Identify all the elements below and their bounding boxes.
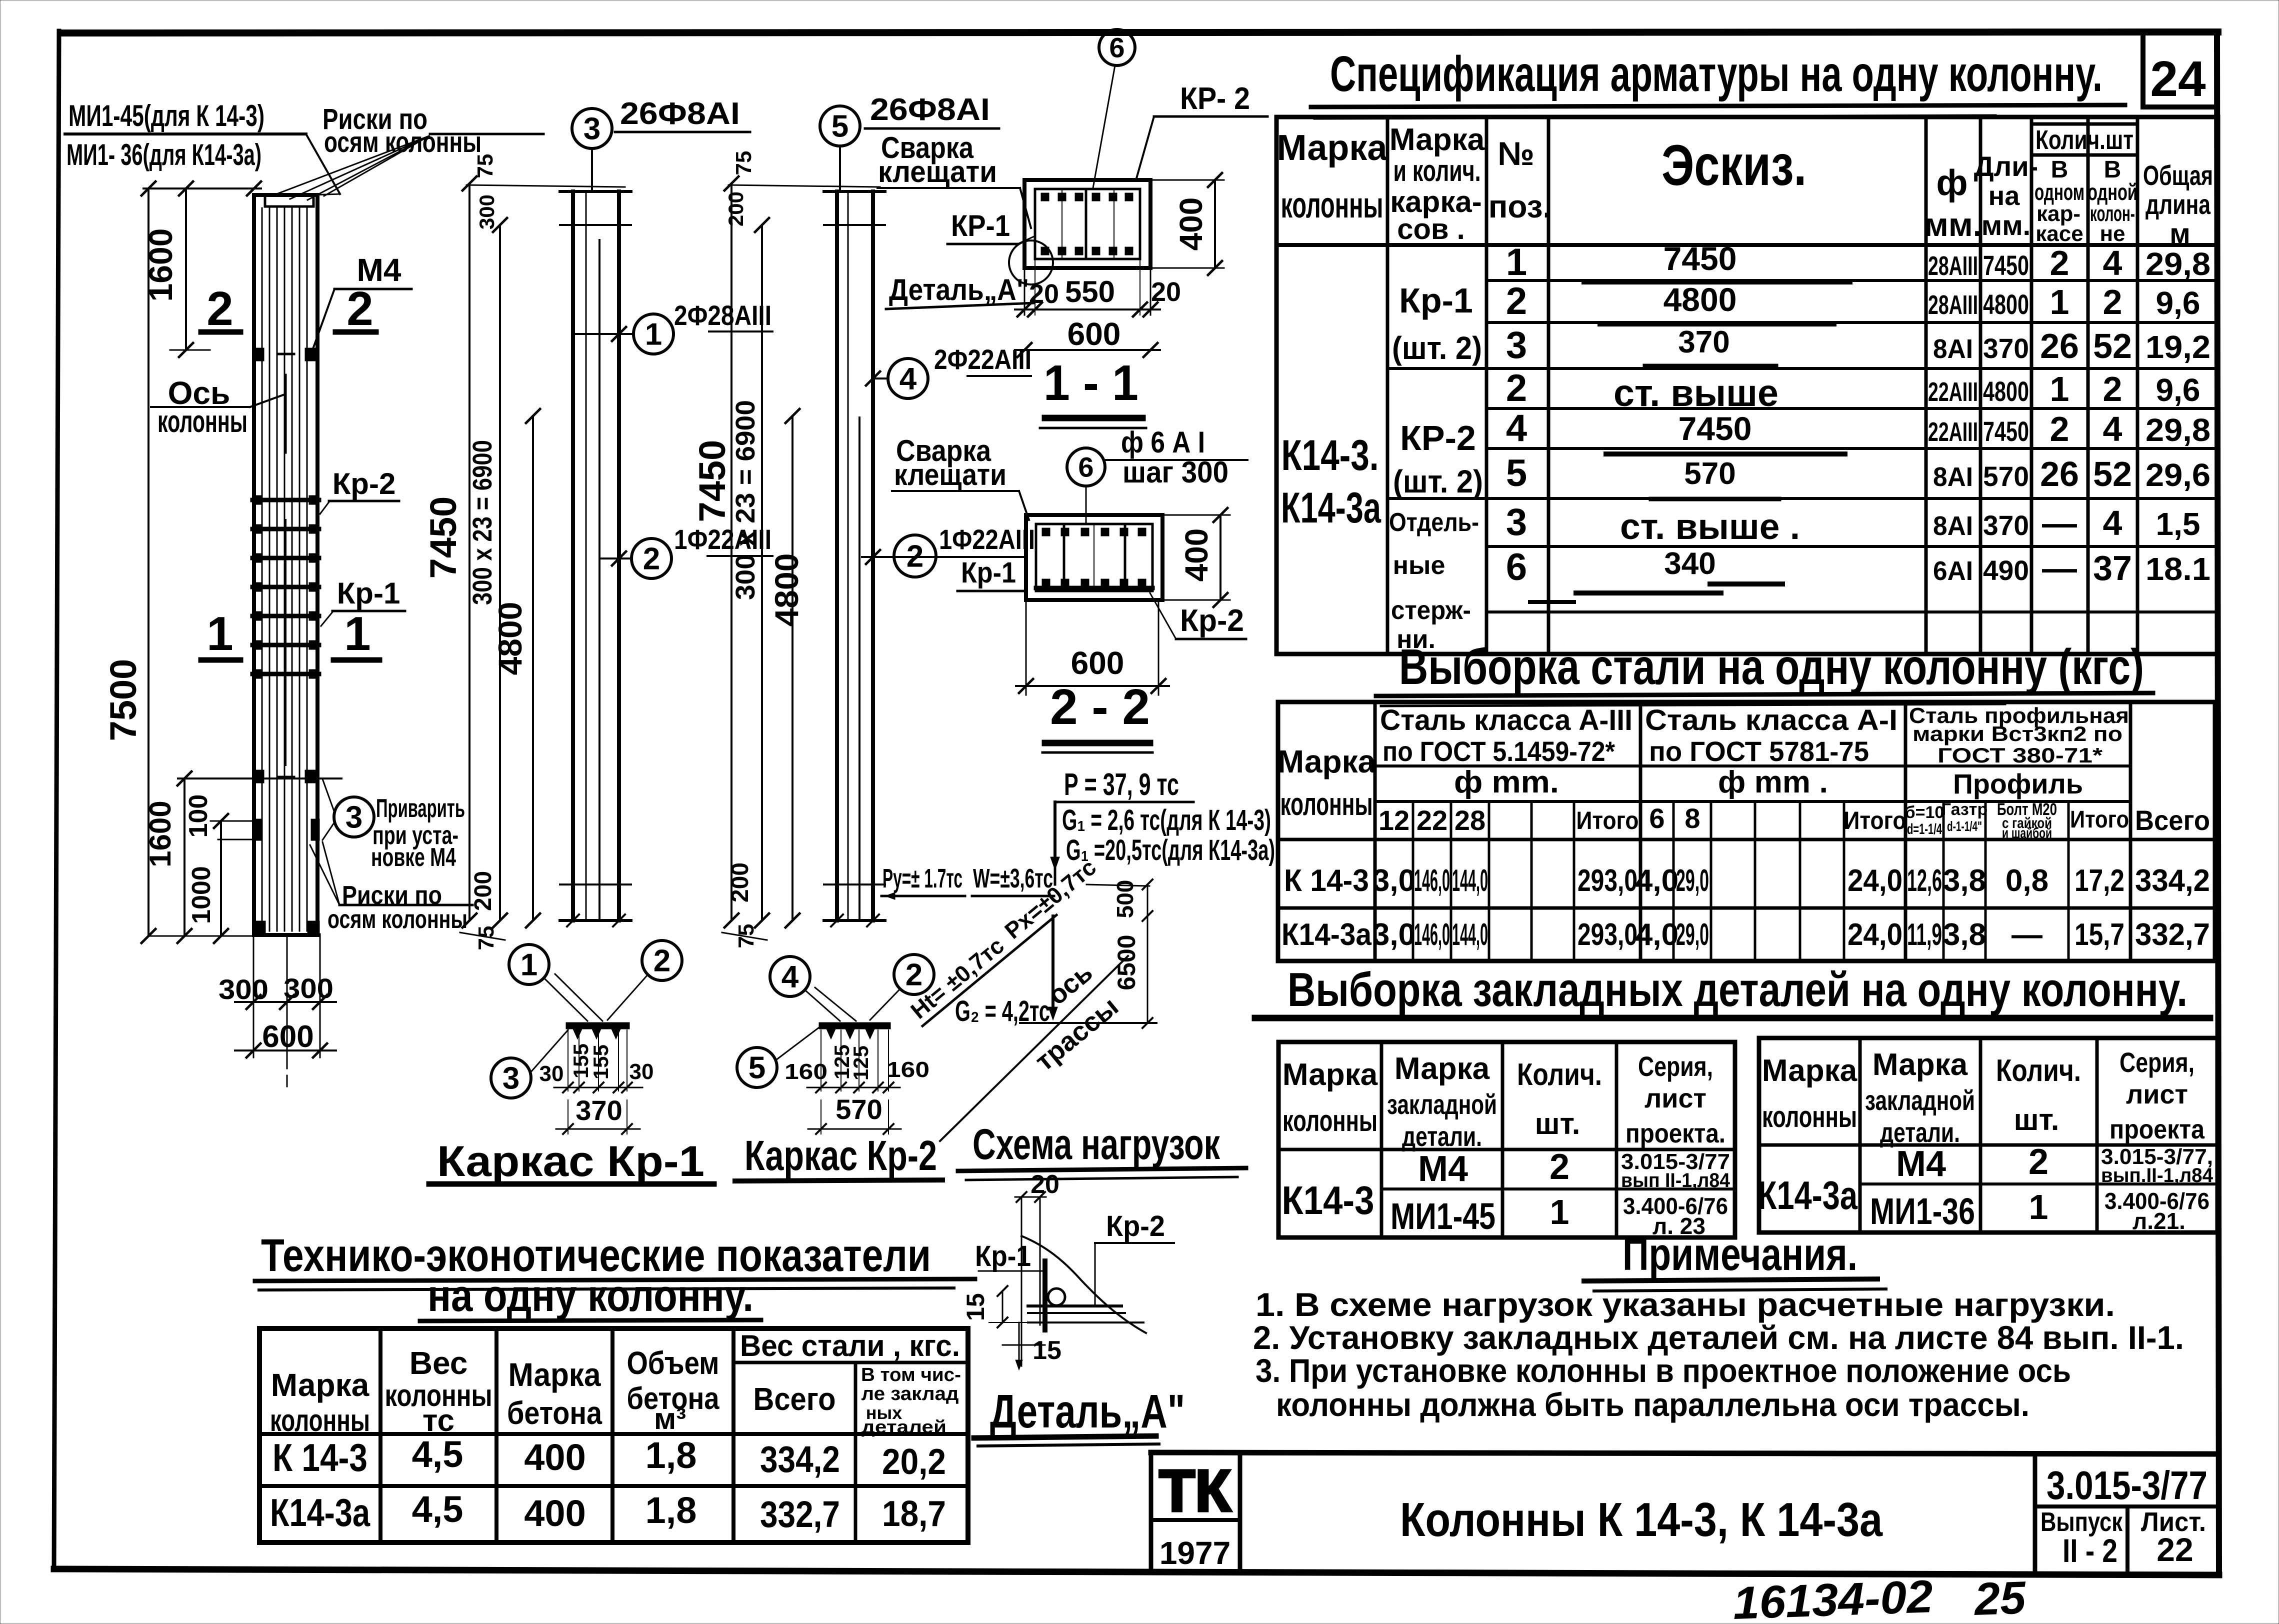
- svg-text:2: 2: [643, 542, 660, 576]
- svg-text:ф mm.: ф mm.: [1454, 765, 1559, 799]
- detail A anchor bar: [1042, 1261, 1047, 1330]
- sheet frame top border: [64, 32, 2218, 33]
- svg-text:550: 550: [1065, 275, 1115, 308]
- svg-text:на одну колонну.: на одну колонну.: [427, 1271, 753, 1321]
- svg-text:К 14-3: К 14-3: [1284, 863, 1369, 898]
- svg-text:22: 22: [2156, 1531, 2193, 1568]
- svg-text:570: 570: [1684, 456, 1735, 491]
- svg-text:3. При установке колонны в: 3. При установке колонны в проектное пол…: [1255, 1352, 2071, 1389]
- svg-text:1: 1: [520, 948, 537, 982]
- svg-text:9,6: 9,6: [2156, 285, 2200, 321]
- dim 400 section 2-2: [1219, 515, 1221, 600]
- svg-text:Ру=± 1.7тс: Ру=± 1.7тс: [882, 863, 962, 893]
- svg-text:300: 300: [283, 972, 333, 1004]
- svg-text:—: —: [2042, 548, 2077, 587]
- svg-text:370: 370: [1678, 325, 1729, 359]
- svg-text:24: 24: [2150, 51, 2206, 107]
- svg-text:5: 5: [748, 1051, 765, 1085]
- svg-text:3: 3: [1506, 501, 1527, 543]
- dim 300 300: [235, 1001, 336, 1003]
- svg-text:18.1: 18.1: [2145, 551, 2210, 587]
- svg-text:370: 370: [575, 1094, 622, 1126]
- column bottom risk marks: [253, 819, 262, 840]
- svg-text:3: 3: [1506, 324, 1527, 366]
- svg-text:600: 600: [262, 1019, 313, 1054]
- svg-text:30: 30: [629, 1059, 654, 1084]
- svg-text:Марка: Марка: [1282, 1057, 1378, 1092]
- svg-text:Марка: Марка: [1389, 122, 1485, 157]
- svg-text:Колич.: Колич.: [1517, 1057, 1602, 1092]
- dim 500: [1147, 884, 1148, 916]
- svg-text:№: №: [1497, 135, 1534, 172]
- svg-text:12: 12: [1378, 804, 1409, 836]
- svg-text:(шт. 2): (шт. 2): [1393, 463, 1483, 499]
- svg-text:24,0: 24,0: [1847, 917, 1902, 952]
- svg-text:Марка: Марка: [1394, 1051, 1490, 1086]
- detail A bottom arrow: [1018, 1322, 1020, 1368]
- svg-text:ле заклад: ле заклад: [861, 1383, 959, 1404]
- svg-text:1: 1: [1506, 241, 1527, 283]
- svg-text:Каркас Кр-2: Каркас Кр-2: [744, 1132, 937, 1179]
- svg-text:Выборка стали на одну коло: Выборка стали на одну колонну (кгс): [1399, 639, 2144, 695]
- svg-text:200: 200: [727, 862, 753, 902]
- svg-text:Кр-1: Кр-1: [975, 1240, 1031, 1272]
- svg-text:15: 15: [1032, 1336, 1061, 1365]
- svg-text:22: 22: [1416, 804, 1447, 836]
- dim 600 bottom: [235, 1049, 336, 1051]
- svg-text:2: 2: [1506, 280, 1527, 322]
- embedded parts right table grid: [1759, 1038, 2217, 1232]
- column stirrup band Kp-1: [252, 498, 319, 502]
- svg-text:570: 570: [1983, 460, 2029, 492]
- svg-text:не: не: [2099, 221, 2125, 246]
- svg-text:300: 300: [475, 194, 498, 229]
- plan Kp-2 bar: [819, 1022, 890, 1029]
- svg-text:Колич.шт: Колич.шт: [2035, 125, 2133, 155]
- riski leader fan: [274, 136, 429, 195]
- svg-text:6АI: 6АI: [1933, 556, 1973, 586]
- svg-text:1: 1: [344, 607, 370, 660]
- svg-text:20: 20: [1030, 1170, 1059, 1199]
- tech-econ table grid: [259, 1328, 968, 1542]
- svg-text:3,8: 3,8: [1943, 863, 1986, 898]
- svg-text:300 х 23 = 6900: 300 х 23 = 6900: [730, 400, 760, 600]
- svg-text:колонны: колонны: [270, 1403, 370, 1438]
- plan Kp-1 dims: [554, 1087, 642, 1088]
- svg-text:Кр-2: Кр-2: [1106, 1210, 1165, 1242]
- svg-text:7450: 7450: [1983, 249, 2029, 281]
- svg-text:4: 4: [2103, 503, 2122, 542]
- svg-text:W=±3,6тс: W=±3,6тс: [973, 863, 1053, 893]
- svg-text:поз.: поз.: [1488, 188, 1552, 224]
- svg-text:332,7: 332,7: [760, 1493, 840, 1535]
- svg-text:Кр-1: Кр-1: [961, 556, 1016, 589]
- detail A verticals: [1021, 1197, 1022, 1366]
- svg-text:4: 4: [1506, 407, 1527, 449]
- svg-text:Отдель-: Отдель-: [1389, 508, 1479, 537]
- svg-text:15,7: 15,7: [2074, 917, 2124, 952]
- svg-text:Выборка закладных деталей н: Выборка закладных деталей на одну колонн…: [1287, 963, 2187, 1016]
- svg-text:570: 570: [835, 1093, 882, 1125]
- dim 300x23=6900 col2: [499, 225, 501, 920]
- svg-text:4,0: 4,0: [1635, 917, 1678, 952]
- svg-text:300: 300: [218, 973, 268, 1005]
- svg-text:Марка: Марка: [1762, 1053, 1857, 1088]
- svg-text:по ГОСТ 5781-75: по ГОСТ 5781-75: [1649, 735, 1869, 767]
- svg-text:осям колонны: осям колонны: [324, 126, 481, 158]
- svg-text:1,8: 1,8: [645, 1489, 697, 1531]
- dim 400 section 1-1: [1214, 180, 1216, 268]
- svg-text:Деталь„А": Деталь„А": [990, 1385, 1185, 1438]
- svg-text:4: 4: [2103, 409, 2122, 448]
- svg-text:II - 2: II - 2: [2062, 1532, 2117, 1569]
- svg-text:1: 1: [2050, 282, 2069, 321]
- svg-text:детали.: детали.: [1402, 1120, 1482, 1152]
- svg-text:К14-3а: К14-3а: [1281, 484, 1381, 532]
- svg-text:16134-02: 16134-02: [1732, 1571, 1933, 1624]
- svg-text:25: 25: [1972, 1572, 2027, 1624]
- svg-text:6: 6: [1506, 546, 1527, 588]
- svg-text:146,0: 146,0: [1414, 917, 1450, 952]
- svg-text:4,5: 4,5: [412, 1488, 463, 1530]
- svg-text:3: 3: [502, 1061, 519, 1096]
- plan Kp-1 circled 3: [491, 1058, 531, 1098]
- svg-text:КР-2: КР-2: [1400, 418, 1476, 457]
- dim 7450 col2: [468, 183, 470, 920]
- svg-text:29,8: 29,8: [2145, 246, 2210, 282]
- svg-text:340: 340: [1664, 546, 1715, 581]
- cage Kp-1 top ticks: [560, 190, 631, 193]
- svg-text:2: 2: [2050, 243, 2069, 282]
- svg-text:4800: 4800: [1983, 288, 2029, 320]
- svg-text:Схема нагрузок: Схема нагрузок: [972, 1120, 1220, 1168]
- svg-text:К14-3а: К14-3а: [1281, 917, 1371, 952]
- svg-text:400: 400: [1173, 197, 1209, 251]
- svg-text:Колонны К 14-3, К 14-3а: Колонны К 14-3, К 14-3а: [1400, 1493, 1883, 1546]
- svg-text:ф mm .: ф mm .: [1718, 765, 1828, 799]
- svg-text:37: 37: [2093, 548, 2132, 587]
- svg-text:200: 200: [724, 191, 747, 226]
- svg-text:К14-3а: К14-3а: [1757, 1173, 1857, 1217]
- svg-text:12,6: 12,6: [1907, 863, 1942, 898]
- load arrow G2: [1051, 916, 1054, 1015]
- svg-text:2: 2: [653, 944, 670, 978]
- svg-text:19,2: 19,2: [2145, 329, 2210, 365]
- section 1-1 rebar dots: [1041, 193, 1049, 201]
- svg-text:300 х 23 = 6900: 300 х 23 = 6900: [467, 440, 497, 605]
- svg-text:ГОСТ 380-71*: ГОСТ 380-71*: [1937, 743, 2103, 767]
- svg-text:колонны должна быть паралл: колонны должна быть параллельна оси трас…: [1276, 1386, 2029, 1423]
- spec table row lines: [1486, 279, 2218, 282]
- svg-text:шт.: шт.: [2014, 1103, 2059, 1136]
- svg-text:К14-3а: К14-3а: [270, 1490, 370, 1534]
- svg-text:5: 5: [831, 109, 848, 144]
- svg-text:400: 400: [524, 1436, 585, 1478]
- circled 2 col2: [631, 538, 671, 578]
- svg-text:—: —: [2042, 503, 2077, 542]
- svg-text:400: 400: [524, 1492, 585, 1534]
- svg-text:7450: 7450: [691, 440, 733, 522]
- detail A break line: [1021, 1236, 1146, 1333]
- svg-text:7450: 7450: [1678, 410, 1752, 447]
- svg-text:(шт. 2): (шт. 2): [1392, 330, 1482, 366]
- svg-text:1: 1: [2050, 369, 2069, 408]
- svg-text:26Ф8АI: 26Ф8АI: [620, 96, 740, 131]
- plan Kp-2 circled 5: [737, 1047, 777, 1087]
- detail A circle on corner: [1009, 240, 1053, 284]
- svg-text:52: 52: [2093, 326, 2132, 365]
- section 2-2 stirrup rect: [1036, 524, 1152, 591]
- svg-text:клещати: клещати: [878, 155, 997, 188]
- svg-text:4: 4: [2103, 243, 2122, 282]
- svg-text:Вес: Вес: [409, 1345, 468, 1381]
- svg-text:Кр-2: Кр-2: [332, 467, 396, 500]
- svg-text:2: 2: [905, 958, 922, 992]
- svg-text:по ГОСТ 5.1459-72*: по ГОСТ 5.1459-72*: [1382, 735, 1615, 767]
- svg-text:Итого: Итого: [2070, 806, 2129, 833]
- plan Kp-2 dims: [807, 1087, 900, 1088]
- axis of route diagonal: [940, 956, 1128, 1141]
- svg-text:1: 1: [2029, 1187, 2048, 1226]
- svg-text:9,6: 9,6: [2156, 372, 2200, 408]
- dim 600 section 1-1: [1015, 349, 1160, 351]
- column 1 bottom extension lines: [253, 934, 254, 1057]
- svg-text:1600: 1600: [143, 800, 177, 867]
- svg-text:вып.II-1,л84: вып.II-1,л84: [2101, 1164, 2213, 1186]
- svg-text:600: 600: [1067, 316, 1121, 352]
- svg-text:8АI: 8АI: [1933, 334, 1973, 364]
- svg-text:3,8: 3,8: [1943, 917, 1986, 952]
- circled 5 top: [820, 106, 860, 146]
- section 2-2 outer rect: [1026, 515, 1162, 600]
- svg-text:7500: 7500: [102, 659, 144, 741]
- section 1-1 inner verticals: [1085, 189, 1087, 259]
- svg-text:8АI: 8АI: [1933, 462, 1973, 492]
- svg-text:144,0: 144,0: [1452, 917, 1488, 952]
- svg-text:370: 370: [1983, 332, 2029, 364]
- spec table kolich box: [2031, 125, 2137, 126]
- load base line: [1020, 1022, 1156, 1024]
- plan Kp-2 circled 2: [894, 954, 934, 994]
- svg-text:Кр-2: Кр-2: [1180, 603, 1244, 638]
- plan Kp-1 leaders: [545, 979, 587, 1021]
- svg-text:Р = 37, 9 тс: Р = 37, 9 тс: [1064, 767, 1179, 802]
- plan Kp-2 extension lines: [820, 1030, 821, 1091]
- svg-text:22АIII: 22АIII: [1928, 377, 1978, 407]
- embedded parts left table grid: [1278, 1042, 1735, 1237]
- svg-text:колонны: колонны: [1762, 1100, 1857, 1133]
- plan Kp-1 extension lines: [567, 1030, 568, 1091]
- svg-text:155: 155: [589, 1044, 612, 1079]
- svg-text:КР- 2: КР- 2: [1180, 81, 1250, 116]
- svg-text:Марка: Марка: [508, 1356, 601, 1393]
- svg-text:1,5: 1,5: [2156, 506, 2200, 542]
- leaders from circled 3: [322, 779, 334, 811]
- svg-text:Итого: Итого: [1844, 806, 1906, 834]
- svg-text:Спецификация арматуры на од: Спецификация арматуры на одну колонну.: [1330, 46, 2102, 102]
- svg-text:колонны: колонны: [1280, 786, 1373, 822]
- svg-text:Дли-: Дли-: [1974, 150, 2038, 182]
- svg-text:бетона: бетона: [507, 1395, 602, 1431]
- svg-text:проекта.: проекта.: [1625, 1118, 1725, 1148]
- svg-text:2: 2: [2103, 282, 2122, 321]
- svg-text:8: 8: [1684, 802, 1700, 834]
- svg-text:3: 3: [583, 112, 600, 146]
- svg-text:29,8: 29,8: [2145, 412, 2210, 448]
- svg-text:2Ф28АIII: 2Ф28АIII: [674, 299, 771, 331]
- svg-text:2: 2: [2103, 369, 2122, 408]
- svg-text:М4: М4: [1896, 1144, 1946, 1184]
- svg-text:6: 6: [1109, 32, 1124, 63]
- svg-text:3: 3: [345, 800, 362, 835]
- column K14-3 elevation body: [254, 195, 317, 935]
- svg-text:Сталь класса А-I: Сталь класса А-I: [1645, 704, 1897, 736]
- section 1-1 outer rect: [1024, 180, 1150, 268]
- svg-text:400: 400: [1178, 528, 1214, 582]
- svg-text:Марка: Марка: [1277, 743, 1376, 779]
- svg-text:Каркас Кр-1: Каркас Кр-1: [437, 1137, 704, 1185]
- svg-text:17,2: 17,2: [2074, 863, 2124, 898]
- svg-text:G₁ =20,5тс(для К14-3а): G₁ =20,5тс(для К14-3а): [1066, 834, 1275, 866]
- svg-text:стерж-: стерж-: [1391, 596, 1471, 625]
- title block frame: [1151, 1452, 2219, 1454]
- svg-text:1600: 1600: [142, 228, 179, 302]
- svg-text:Общая: Общая: [2143, 159, 2213, 191]
- column embed M4 lower marks: [252, 770, 264, 783]
- svg-text:4800: 4800: [1663, 281, 1737, 318]
- svg-text:ные: ные: [1393, 551, 1445, 580]
- svg-text:Серия,: Серия,: [1638, 1050, 1713, 1082]
- svg-text:Всего: Всего: [753, 1381, 836, 1417]
- top dim line column 1: [143, 187, 261, 189]
- svg-text:3,0: 3,0: [1372, 863, 1415, 898]
- svg-text:20: 20: [1151, 277, 1181, 307]
- svg-text:1000: 1000: [187, 866, 216, 924]
- section 1-1 stirrup rect: [1035, 189, 1140, 259]
- svg-text:2: 2: [2050, 409, 2069, 448]
- svg-text:125: 125: [849, 1045, 872, 1080]
- svg-text:МИ1-45: МИ1-45: [1390, 1195, 1495, 1237]
- plan Kp-2 circled 4: [770, 956, 810, 996]
- svg-text:Колич.: Колич.: [1996, 1053, 2081, 1088]
- svg-text:ст. выше: ст. выше: [1613, 372, 1778, 414]
- svg-text:Газтр: Газтр: [1941, 800, 1987, 819]
- svg-text:м³: м³: [654, 1402, 686, 1435]
- svg-text:500: 500: [1112, 880, 1138, 918]
- svg-text:334,2: 334,2: [760, 1438, 840, 1480]
- svg-text:2: 2: [1506, 367, 1527, 409]
- dim 4800 col2: [532, 416, 534, 920]
- svg-text:2: 2: [906, 539, 923, 574]
- circled 1 col2: [633, 314, 673, 354]
- cage Kp-1 elevation bars: [571, 191, 575, 920]
- svg-text:4800: 4800: [491, 602, 528, 675]
- svg-text:Эскиз.: Эскиз.: [1661, 133, 1806, 197]
- svg-text:2Ф22АIII: 2Ф22АIII: [934, 343, 1031, 375]
- svg-text:20: 20: [1029, 279, 1059, 309]
- plan Kp-1 bar: [566, 1022, 629, 1029]
- svg-text:закладной: закладной: [1387, 1088, 1497, 1120]
- svg-text:26Ф8АI: 26Ф8АI: [870, 92, 990, 127]
- svg-text:Итого: Итого: [1576, 806, 1639, 834]
- svg-text:лист: лист: [1644, 1083, 1706, 1113]
- svg-text:марки Вст3кп2 по: марки Вст3кп2 по: [1912, 722, 2122, 745]
- svg-text:75: 75: [731, 151, 756, 175]
- svg-text:мм.: мм.: [1924, 206, 1982, 243]
- svg-text:G₁ = 2,6 тс(для К 14-3): G₁ = 2,6 тс(для К 14-3): [1062, 804, 1271, 836]
- plan Kp-1 circled 1: [509, 944, 549, 984]
- circled 6 top: [1099, 29, 1135, 65]
- svg-text:2: 2: [2028, 1142, 2048, 1182]
- svg-text:Деталь„А": Деталь„А": [889, 273, 1029, 306]
- col2 top dim labels: [466, 185, 625, 187]
- svg-text:1: 1: [206, 607, 233, 660]
- load bend lines: [1054, 865, 1056, 884]
- section 2-2 rebar dots: [1042, 528, 1050, 536]
- dim 600 section 2-2: [1025, 600, 1027, 695]
- svg-text:7450: 7450: [1663, 240, 1737, 277]
- svg-text:вып II-1,л84: вып II-1,л84: [1621, 1169, 1730, 1191]
- svg-text:332,7: 332,7: [2135, 917, 2210, 952]
- svg-text:колонны: колонны: [1281, 185, 1383, 225]
- svg-text:касе: касе: [2035, 221, 2083, 246]
- spec table header bottom: [1276, 243, 2218, 247]
- svg-text:22АIII: 22АIII: [1928, 417, 1978, 447]
- svg-text:сов .: сов .: [1397, 213, 1465, 245]
- svg-text:20,2: 20,2: [882, 1442, 946, 1482]
- svg-text:2: 2: [1549, 1147, 1569, 1187]
- svg-text:8АI: 8АI: [1933, 511, 1973, 541]
- svg-text:370: 370: [1983, 509, 2029, 541]
- svg-text:Серия,: Серия,: [2119, 1046, 2194, 1078]
- svg-text:293,0: 293,0: [1577, 863, 1637, 898]
- svg-text:d-1-1/4": d-1-1/4": [1947, 818, 1982, 834]
- col3 top dim labels: [728, 185, 880, 187]
- sheet frame right border: [2217, 32, 2219, 1573]
- section 2-2 inner verticals: [1063, 524, 1065, 591]
- svg-text:осям колонны: осям колонны: [327, 905, 467, 934]
- svg-text:160: 160: [886, 1057, 929, 1082]
- svg-text:Марка: Марка: [1872, 1047, 1968, 1082]
- svg-text:МИ1-45(для К 14-3): МИ1-45(для К 14-3): [68, 99, 264, 132]
- svg-text:и колич.: и колич.: [1393, 154, 1481, 187]
- dim 7450 col3: [730, 183, 732, 920]
- bottom-left dims 1600 100 1000: [183, 778, 185, 936]
- dim 7500 vertical: [147, 188, 149, 936]
- svg-text:и шайбой: и шайбой: [2002, 825, 2052, 841]
- svg-text:м: м: [2169, 217, 2190, 249]
- svg-text:144,0: 144,0: [1452, 863, 1488, 898]
- svg-text:1. В схеме нагрузок указаны: 1. В схеме нагрузок указаны расчетные на…: [1255, 1286, 2115, 1323]
- circled 3 top: [572, 108, 612, 148]
- svg-text:490: 490: [1983, 554, 2029, 586]
- svg-text:В том чис-: В том чис-: [861, 1364, 961, 1385]
- svg-text:Объем: Объем: [627, 1345, 719, 1381]
- circled 4 col3: [888, 358, 928, 398]
- svg-text:1 - 1: 1 - 1: [1043, 355, 1138, 411]
- cage Kp-2 elevation bars: [835, 191, 839, 920]
- svg-text:600: 600: [1071, 645, 1124, 681]
- svg-text:б=10: б=10: [1905, 803, 1944, 822]
- svg-text:100: 100: [184, 794, 213, 838]
- svg-text:4,0: 4,0: [1635, 863, 1678, 898]
- svg-text:Марка: Марка: [271, 1367, 369, 1403]
- dim 1600 top vertical: [185, 188, 187, 350]
- svg-text:4: 4: [781, 960, 799, 994]
- svg-text:клещати: клещати: [894, 458, 1006, 491]
- svg-text:52: 52: [2093, 454, 2132, 493]
- cage Kp-1 bottom ticks: [567, 914, 579, 926]
